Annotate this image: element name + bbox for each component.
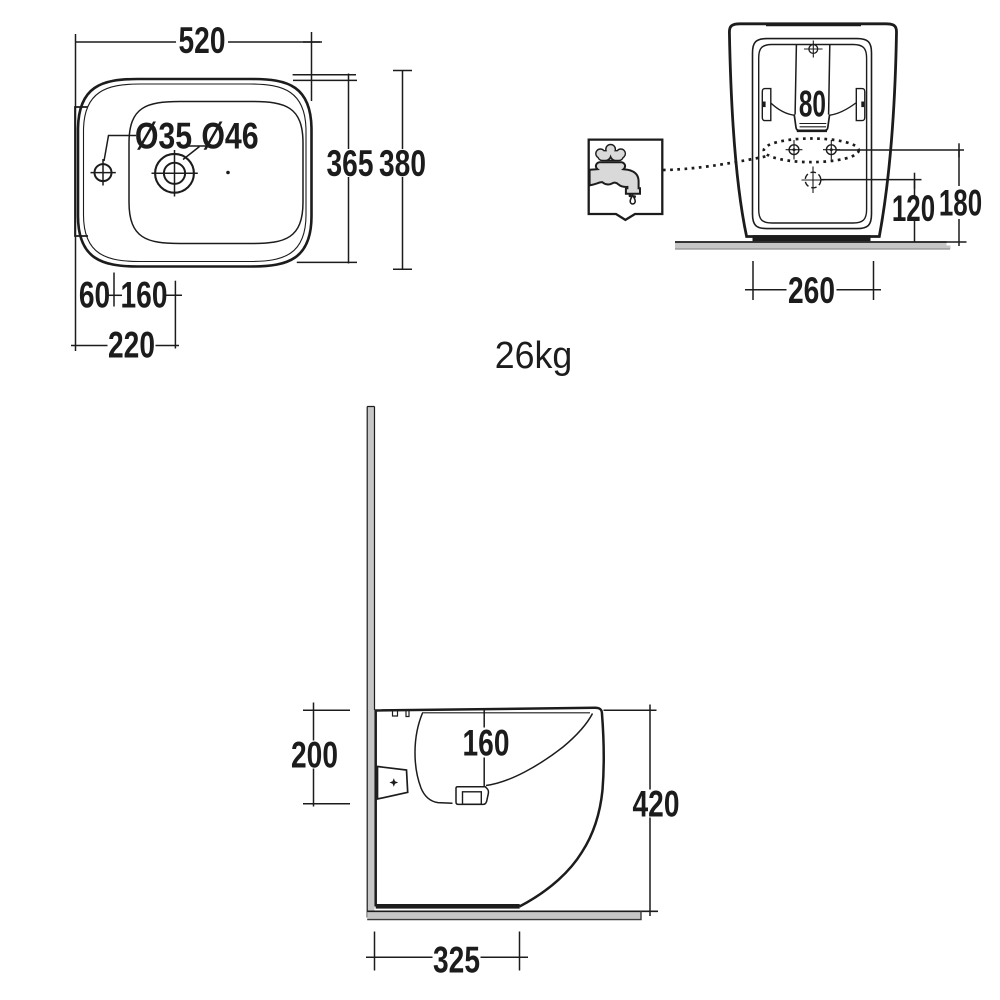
side bowl front wall curve bbox=[415, 713, 453, 803]
leader from right hole to 180 dim bbox=[836, 149, 964, 151]
dimension 120 top tick bbox=[914, 173, 916, 189]
front upper-right hole crosshair bbox=[823, 140, 840, 160]
svg-text:Ø46: Ø46 bbox=[201, 116, 258, 158]
dimension 520 extension line right bbox=[311, 32, 313, 101]
svg-text:26kg: 26kg bbox=[495, 334, 572, 376]
floor slab side view bbox=[367, 912, 641, 920]
dotted leader from tap box to ellipse bbox=[663, 156, 770, 171]
dimension 160 extension line right bbox=[174, 281, 176, 349]
plan bowl rim bbox=[129, 102, 303, 244]
dimension 325 extension right bbox=[519, 932, 521, 971]
label 420 bbox=[632, 783, 680, 825]
side tap deck inner rect bbox=[463, 792, 482, 804]
front inner second contour bbox=[759, 45, 867, 224]
leader line for Ø46 bbox=[183, 146, 206, 160]
svg-text:520: 520 bbox=[179, 19, 226, 61]
dimension 180 line bbox=[958, 150, 960, 246]
label 365 bbox=[326, 142, 374, 184]
svg-text:60: 60 bbox=[79, 274, 110, 316]
dimension 200 bottom extension bbox=[303, 803, 350, 805]
dimension 260 extension right bbox=[873, 261, 875, 300]
tap icon handle lobes bbox=[597, 145, 625, 160]
dimension 365 extension top lines bbox=[293, 75, 357, 81]
side wall bracket bbox=[378, 767, 408, 800]
dimension 365 line bbox=[348, 74, 350, 264]
label Ø35 bbox=[135, 116, 192, 158]
dimension 260 extension left bbox=[752, 261, 754, 300]
front floor slab step bbox=[947, 246, 951, 250]
dimension 200 line bbox=[313, 703, 315, 807]
side bowl sweep curve bbox=[486, 714, 593, 786]
dimension 520 extension line left bbox=[75, 34, 77, 351]
front dotted ellipse of fixing zone bbox=[764, 139, 859, 163]
plan tap hole outer circle bbox=[155, 154, 194, 193]
front top fixing hole crosshair bbox=[804, 41, 823, 58]
label 160 side bbox=[463, 722, 510, 764]
label Ø46 bbox=[201, 116, 258, 158]
svg-text:365: 365 bbox=[327, 142, 374, 184]
dimension 380 line bbox=[402, 71, 404, 270]
front spout shelf lines bbox=[799, 124, 826, 127]
dimension 220 line bbox=[71, 345, 179, 347]
side body outline bbox=[376, 708, 604, 907]
svg-text:Ø35: Ø35 bbox=[135, 116, 192, 158]
front inner rim rounded rect bbox=[753, 39, 872, 229]
label 60 bbox=[79, 274, 110, 316]
front base thick bar bbox=[753, 235, 871, 241]
svg-text:420: 420 bbox=[633, 783, 680, 825]
plan left fixing hole circle bbox=[95, 164, 112, 181]
front spout cup bottom thick line bbox=[797, 130, 827, 132]
dimension 420 top extension bbox=[604, 709, 657, 711]
svg-text:160: 160 bbox=[121, 274, 168, 316]
tap icon drip dots bbox=[629, 194, 632, 197]
svg-text:200: 200 bbox=[291, 734, 338, 776]
dimension 160 side line bbox=[483, 710, 485, 786]
svg-text:380: 380 bbox=[379, 142, 426, 184]
label 260 bbox=[787, 269, 837, 311]
front bowl smile arc right bbox=[830, 103, 856, 115]
side rim inner line bbox=[422, 712, 590, 714]
label 200 bbox=[291, 734, 339, 776]
plan mounting tab bbox=[75, 107, 88, 236]
front upper-right hole dot bbox=[830, 148, 833, 151]
dimension 520 right tick bbox=[303, 41, 322, 43]
side rim small marks bbox=[393, 710, 410, 717]
dimension 325 line bbox=[366, 956, 528, 958]
dimension 365 bottom extension bbox=[297, 261, 357, 263]
svg-text:160: 160 bbox=[463, 722, 510, 764]
label 520 bbox=[176, 19, 228, 61]
svg-text:180: 180 bbox=[939, 182, 982, 224]
front upper-left hole circle bbox=[789, 145, 799, 155]
front floor slab bbox=[675, 242, 947, 249]
front center channel left line bbox=[795, 45, 796, 115]
front floor top edge bbox=[675, 241, 947, 243]
tap icon faucet body bbox=[590, 162, 640, 194]
label 220 bbox=[108, 324, 156, 366]
front body outline bbox=[729, 24, 896, 237]
label 80 bbox=[798, 83, 826, 124]
front drain hole crosshair bbox=[802, 167, 825, 194]
plan tap hole inner circle bbox=[164, 163, 185, 184]
floor bottom and right edge side view bbox=[367, 911, 641, 919]
dimension 60/160 cross segment a bbox=[107, 294, 122, 296]
svg-text:325: 325 bbox=[433, 939, 480, 981]
plan center mark dot bbox=[226, 171, 230, 175]
svg-text:260: 260 bbox=[788, 269, 835, 311]
dimension 520 line bbox=[76, 41, 321, 43]
plan body outline inner rim line bbox=[84, 84, 307, 262]
floor level extension right bbox=[946, 241, 967, 243]
svg-text:220: 220 bbox=[108, 324, 155, 366]
dimension 260 line bbox=[745, 289, 881, 291]
front right bracket bbox=[856, 89, 865, 121]
label 180 bbox=[939, 182, 982, 224]
tap icon box bbox=[589, 140, 663, 220]
tap icon water drop bbox=[630, 195, 635, 204]
floor top edge side view bbox=[367, 910, 658, 912]
dimension 120 line bbox=[914, 180, 916, 243]
label 160 plan bbox=[121, 274, 168, 316]
label 325 bbox=[433, 939, 481, 981]
front body top rim thick band bbox=[766, 23, 861, 26]
dimension 420 line bbox=[649, 705, 651, 917]
label 380 bbox=[379, 142, 427, 184]
front left bracket dot bbox=[763, 102, 766, 108]
dimension 60/160 cross segment b bbox=[166, 294, 183, 296]
label 120 bbox=[892, 187, 935, 229]
plan body outline outer bbox=[78, 79, 312, 267]
dimension 380 bottom tick bbox=[393, 268, 412, 270]
front center channel right line bbox=[829, 45, 830, 115]
front bowl smile arc left bbox=[771, 103, 794, 115]
label 26kg bbox=[495, 334, 572, 376]
side wall bracket star bbox=[389, 778, 398, 787]
front upper-left hole dot bbox=[793, 148, 796, 151]
plan left fixing hole crosshair bbox=[91, 159, 116, 186]
side base thick line bbox=[376, 904, 520, 909]
dimension 380 top tick bbox=[393, 70, 412, 72]
front upper-left hole crosshair bbox=[786, 140, 803, 160]
plan tap hole crosshair bbox=[152, 150, 198, 197]
front upper-right hole circle bbox=[826, 145, 836, 155]
front top fixing hole circle bbox=[809, 45, 818, 54]
wall slab edges bbox=[367, 407, 374, 918]
svg-text:80: 80 bbox=[799, 83, 826, 124]
dimension 180 top tick bbox=[958, 143, 960, 157]
front drain hole circle dashed bbox=[805, 172, 821, 188]
svg-text:120: 120 bbox=[892, 187, 935, 229]
front floor bottom edge bbox=[675, 248, 950, 250]
front left bracket bbox=[762, 89, 771, 121]
front spout cup outline bbox=[794, 115, 829, 131]
side tap deck outer bbox=[456, 787, 489, 805]
leader line for Ø35 bbox=[104, 136, 136, 162]
dimension 325 extension left bbox=[374, 932, 376, 971]
wall slab bbox=[367, 407, 374, 918]
front right bracket dot bbox=[861, 102, 864, 108]
dimension 200 top extension bbox=[303, 709, 350, 711]
leader from drain hole to 120 dim bbox=[821, 179, 922, 181]
dimension 60/160 tick a bbox=[113, 273, 115, 307]
tap icon handle center notch bbox=[607, 157, 615, 161]
